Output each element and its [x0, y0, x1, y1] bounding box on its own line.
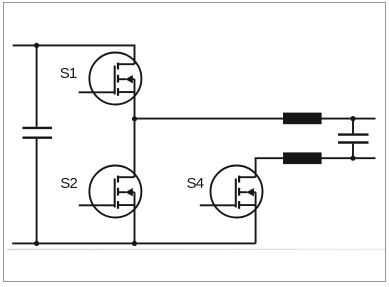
wire capacitor upper lead [36, 45, 38, 126]
wire top bus [13, 45, 135, 64]
svg-text:S2: S2 [60, 175, 77, 192]
capacitor C2 upper lead [352, 119, 354, 134]
capacitor C1 [23, 128, 53, 138]
node output top junction [350, 116, 355, 121]
inductor L2 [283, 152, 322, 164]
svg-text:S4: S4 [187, 175, 204, 192]
wire bottom bus [12, 242, 255, 244]
node output bottom junction [350, 156, 355, 161]
transistor S1 [79, 53, 142, 105]
node bottom-left junction [34, 241, 39, 246]
inductor L1 [283, 113, 322, 125]
node top-left junction [34, 43, 39, 48]
svg-text:S1: S1 [60, 65, 77, 82]
capacitor C2 [338, 135, 369, 143]
wire midpoint to inductor L1 [135, 118, 284, 120]
wire S1 source to midpoint node [134, 79, 136, 118]
transistor S2 [79, 166, 142, 218]
wire capacitor lower lead [36, 139, 38, 244]
node midpoint junction [132, 116, 137, 121]
wire L2 to output [322, 157, 376, 159]
wire L1 to output [322, 118, 376, 120]
node bottom-mid junction [132, 241, 137, 246]
wire midpoint to S2 drain [134, 119, 136, 178]
wire S2 source to bottom bus [134, 192, 136, 243]
wire S4 source to bottom bus [255, 192, 257, 243]
faded rule artifact [7, 248, 385, 250]
transistor S4 [200, 166, 263, 218]
capacitor C2 lower lead [352, 144, 354, 159]
wire S4 drain corner to inductor L2 [256, 158, 283, 177]
